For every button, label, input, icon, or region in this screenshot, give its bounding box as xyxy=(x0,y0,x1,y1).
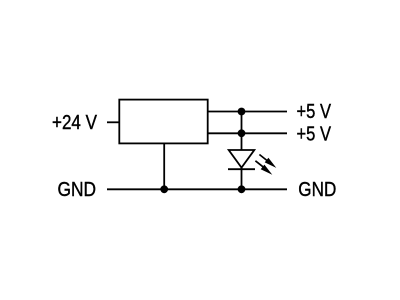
svg-text:+24 V: +24 V xyxy=(52,111,97,134)
GND bus wire xyxy=(107,188,287,190)
svg-text:+5 V: +5 V xyxy=(297,123,332,146)
wire LED branch vertical xyxy=(241,112,243,190)
svg-text:+5 V: +5 V xyxy=(297,100,332,123)
wire +24V input xyxy=(107,121,120,123)
junction dot GND box branch xyxy=(160,185,168,193)
LED D1 cathode bar xyxy=(228,168,255,170)
wire +5V bottom xyxy=(208,132,287,134)
LED D1 triangle xyxy=(229,150,255,168)
wire box to GND bus xyxy=(163,143,165,189)
svg-text:GND: GND xyxy=(298,178,336,201)
wire +5V top xyxy=(208,111,287,113)
svg-text:GND: GND xyxy=(58,178,97,201)
junction dot +5V top xyxy=(238,108,246,116)
converter box U1 xyxy=(119,100,207,144)
junction dot GND LED branch xyxy=(238,185,246,193)
junction dot +5V bottom xyxy=(238,129,246,137)
LED light arrow lower xyxy=(255,161,272,175)
LED light arrow upper xyxy=(259,155,276,168)
